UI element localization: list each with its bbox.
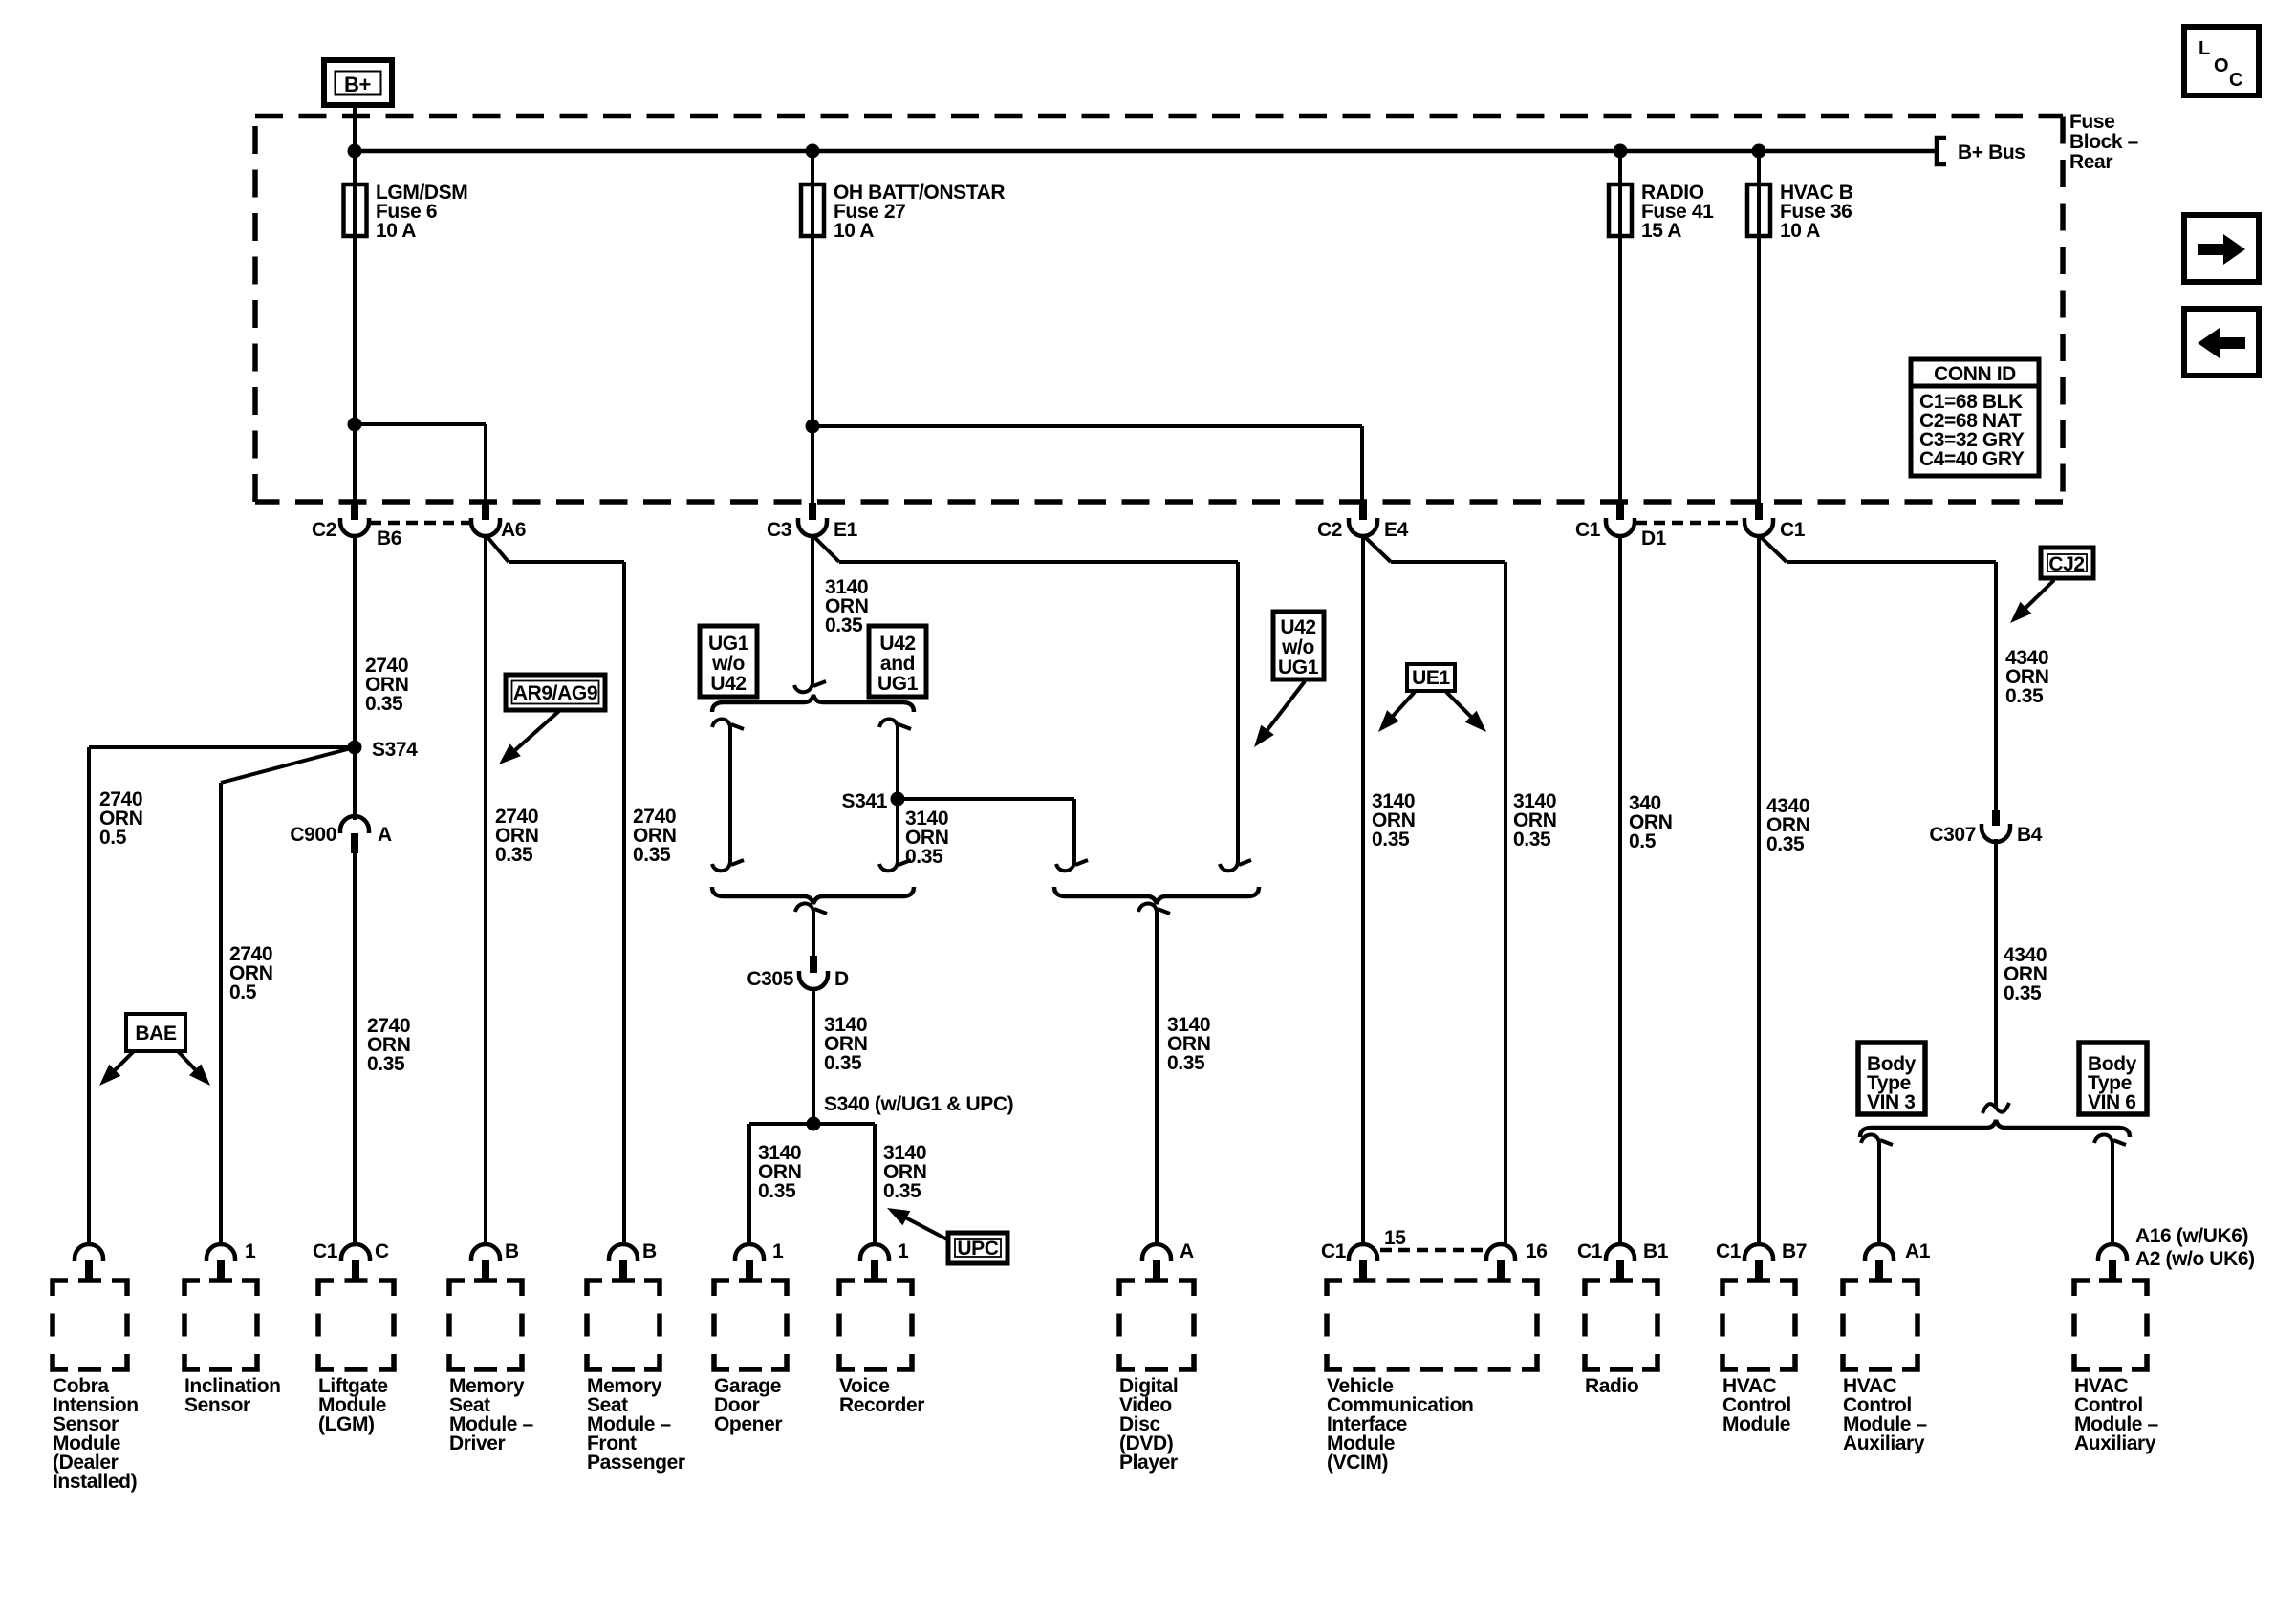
wire bus to fuse 6 <box>353 151 357 503</box>
svg-text:UG1: UG1 <box>877 673 919 695</box>
wire D1 to radio <box>1618 535 1622 1246</box>
wire label 4340 ORN 0.35 (HVAC) <box>1766 795 1809 855</box>
module DVD player, pin A <box>1119 1240 1194 1474</box>
wire label 4340 ORN 0.35 (CJ2 lower) <box>2004 944 2047 1004</box>
svg-text:CJ2: CJ2 <box>2048 553 2084 575</box>
junction bus/F6 <box>348 144 362 159</box>
svg-text:Opener: Opener <box>714 1413 782 1435</box>
svg-text:C1: C1 <box>313 1240 338 1262</box>
callout AR9/AG9 <box>499 675 605 764</box>
hyperlink arrow left box <box>2184 309 2259 376</box>
svg-text:0.35: 0.35 <box>2004 982 2042 1004</box>
svg-text:C1: C1 <box>1321 1240 1347 1262</box>
svg-text:B+ Bus: B+ Bus <box>1958 141 2025 163</box>
wire S340 to voice recorder <box>813 1124 875 1246</box>
svg-text:1: 1 <box>772 1240 784 1262</box>
splice S340 <box>807 1093 1014 1131</box>
svg-text:C3: C3 <box>767 519 791 541</box>
label fuse 41 <box>1641 182 1714 242</box>
fuse F6 LGM/DSM <box>344 184 367 236</box>
wire to HVAC aux (VIN 6) <box>2094 1134 2126 1246</box>
wire C1 to HVAC control module <box>1757 535 1761 1246</box>
svg-text:D: D <box>834 968 849 990</box>
wire B+ to bus <box>353 105 357 151</box>
wire label 2740 ORN 0.35 (Seat Passenger) <box>633 806 676 866</box>
svg-text:VIN 3: VIN 3 <box>1867 1091 1916 1113</box>
svg-text:A: A <box>378 824 392 846</box>
wire brace to C305 <box>795 903 827 956</box>
connector C3 pin E1 <box>767 503 858 541</box>
wire F6 to A6 branch <box>355 424 486 503</box>
label fuse 6 <box>376 182 467 242</box>
svg-text:A6: A6 <box>501 519 526 541</box>
svg-text:O: O <box>2214 55 2228 76</box>
wire S374 to Cobra sensor <box>89 747 355 1246</box>
wire E1 down <box>794 535 826 692</box>
svg-text:Passenger: Passenger <box>587 1452 685 1474</box>
wire bus to fuse 36 <box>1757 151 1761 503</box>
wire label 2740 ORN 0.35 (Seat Driver) <box>495 806 538 866</box>
callout U42 and UG1 <box>869 626 926 697</box>
wire B6 to S374 <box>353 535 357 747</box>
module HVAC control module auxiliary (VIN 3), pin A1 <box>1843 1240 1931 1454</box>
svg-text:15: 15 <box>1384 1227 1406 1249</box>
svg-text:10 A: 10 A <box>1780 220 1820 242</box>
wire label 3140 ORN 0.35 (C305) <box>824 1014 867 1074</box>
svg-text:0.35: 0.35 <box>905 846 943 868</box>
svg-text:0.5: 0.5 <box>229 981 257 1003</box>
svg-text:Recorder: Recorder <box>839 1394 924 1416</box>
option wire U42 and UG1 <box>879 719 911 871</box>
wire label 3140 ORN 0.35 (E1) <box>825 576 868 636</box>
svg-text:0.35: 0.35 <box>883 1180 921 1202</box>
svg-text:Fuse: Fuse <box>2069 111 2114 133</box>
svg-text:C1: C1 <box>1716 1240 1742 1262</box>
svg-text:and: and <box>880 653 915 675</box>
wire label 2740 ORN 0.35 (B6) <box>365 655 408 715</box>
svg-text:D1: D1 <box>1641 528 1667 549</box>
module memory seat front passenger, pin B <box>587 1240 685 1474</box>
svg-text:C305: C305 <box>747 968 793 990</box>
svg-text:A1: A1 <box>1905 1240 1931 1262</box>
svg-text:AR9/AG9: AR9/AG9 <box>513 682 597 704</box>
svg-text:Sensor: Sensor <box>184 1394 250 1416</box>
svg-text:C: C <box>2229 70 2242 91</box>
svg-text:E1: E1 <box>834 519 858 541</box>
svg-text:B6: B6 <box>377 528 401 549</box>
svg-text:0.35: 0.35 <box>365 693 403 715</box>
connector C2 pin B6 <box>312 503 401 549</box>
battery feed terminal B+ <box>324 60 392 105</box>
splice S341 <box>842 790 905 812</box>
svg-text:0.35: 0.35 <box>1766 833 1805 855</box>
svg-text:UG1: UG1 <box>1278 657 1319 678</box>
connector link B6-A6 (dotted) <box>370 521 470 526</box>
module voice recorder, pin 1 <box>839 1240 924 1416</box>
fuse F27 OH BATT/ONSTAR <box>801 184 824 236</box>
connector C305 pin D <box>747 956 849 990</box>
svg-text:w/o: w/o <box>1281 636 1314 658</box>
label fuse 27 <box>834 182 1005 242</box>
LOC reference box <box>2184 27 2259 96</box>
svg-text:C1: C1 <box>1780 519 1806 541</box>
body type split brace <box>1860 1120 2130 1137</box>
wire label 3140 ORN 0.35 (VCIM 16) <box>1513 790 1556 851</box>
wire S341 to DVD option <box>898 799 1088 871</box>
junction bus/F36 <box>1752 144 1766 159</box>
callout Body Type VIN 6 <box>2079 1043 2147 1114</box>
svg-text:C1: C1 <box>1577 1240 1603 1262</box>
wire C305 to S340 <box>812 988 815 1124</box>
module inclination sensor <box>184 1240 281 1416</box>
wire C307 down <box>1994 839 1998 1109</box>
option wire UG1 w/o U42 <box>712 719 744 871</box>
fuse F41 RADIO <box>1609 184 1632 236</box>
wire E1 to DVD option <box>812 535 1251 871</box>
svg-text:0.5: 0.5 <box>99 827 127 849</box>
callout Body Type VIN 3 <box>1858 1043 1925 1114</box>
svg-text:UPC: UPC <box>957 1238 998 1260</box>
wire label 340 ORN 0.5 (Radio) <box>1629 792 1672 852</box>
svg-text:L: L <box>2199 38 2210 59</box>
module HVAC control module, connector C1 pin B7 <box>1716 1240 1807 1435</box>
svg-text:0.35: 0.35 <box>1513 829 1551 851</box>
svg-text:Rear: Rear <box>2069 151 2112 173</box>
svg-text:Auxiliary: Auxiliary <box>1843 1432 1925 1454</box>
svg-text:Driver: Driver <box>449 1432 506 1454</box>
module HVAC control module auxiliary (VIN 6), pins A16/A2 <box>2074 1225 2255 1454</box>
fuse block - rear (dashed outline) <box>255 117 2063 503</box>
module liftgate (LGM), connector C1 pin C <box>313 1240 394 1435</box>
svg-text:VIN 6: VIN 6 <box>2088 1091 2136 1113</box>
svg-text:UE1: UE1 <box>1412 667 1450 689</box>
svg-text:C2: C2 <box>312 519 336 541</box>
svg-text:Radio: Radio <box>1585 1375 1638 1397</box>
svg-text:A: A <box>1180 1240 1194 1262</box>
svg-text:Module: Module <box>1722 1413 1790 1435</box>
wire to HVAC aux (VIN 3) <box>1861 1134 1893 1246</box>
connector C1 pin D1 <box>1575 503 1667 549</box>
module memory seat driver, pin B <box>449 1240 534 1454</box>
wire label 3140 ORN 0.35 (Garage) <box>758 1142 801 1202</box>
connector C2 pin E4 <box>1317 503 1409 541</box>
svg-text:U42: U42 <box>1280 616 1315 638</box>
svg-text:C1: C1 <box>1575 519 1601 541</box>
module radio, connector C1 pin B1 <box>1577 1240 1669 1397</box>
wire S340 to garage door opener <box>749 1124 813 1246</box>
svg-text:S374: S374 <box>372 739 418 761</box>
hyperlink arrow right box <box>2184 215 2259 282</box>
svg-text:B+: B+ <box>344 73 371 97</box>
junction F6 branch <box>348 418 362 432</box>
label Fuse Block - Rear <box>2069 111 2139 173</box>
wire A6 to memory seat passenger <box>486 535 624 1246</box>
wire label 4340 ORN 0.35 (CJ2 upper) <box>2005 647 2048 707</box>
CONN ID legend table <box>1911 359 2039 476</box>
svg-text:10 A: 10 A <box>376 220 416 242</box>
module VCIM, connector C1 pins 15 and 16 <box>1321 1227 1548 1474</box>
connector C1 (HVAC B) <box>1744 503 1806 541</box>
wire E4 to VCIM pin 15 <box>1361 535 1365 1246</box>
svg-text:B4: B4 <box>2017 824 2043 846</box>
svg-text:(VCIM): (VCIM) <box>1327 1452 1388 1474</box>
wire break mark <box>1982 1103 2009 1113</box>
svg-text:0.35: 0.35 <box>367 1053 405 1075</box>
option merge brace (top) <box>712 695 914 712</box>
svg-text:B1: B1 <box>1643 1240 1669 1262</box>
svg-text:15 A: 15 A <box>1641 220 1681 242</box>
svg-text:w/o: w/o <box>711 653 745 675</box>
wire bus to fuse 27 <box>811 151 814 503</box>
svg-text:0.35: 0.35 <box>758 1180 796 1202</box>
svg-text:B7: B7 <box>1782 1240 1807 1262</box>
connector pin A6 <box>471 503 526 541</box>
svg-text:0.35: 0.35 <box>824 1052 862 1074</box>
wire label 2740 ORN 0.35 (Liftgate) <box>367 1015 410 1075</box>
wire C1 to C307 <box>1759 535 1996 810</box>
connector C307 pin B4 <box>1929 810 2042 846</box>
svg-text:U42: U42 <box>879 633 915 655</box>
svg-text:B: B <box>505 1240 519 1262</box>
option merge brace (left bottom) <box>712 887 914 904</box>
junction bus/F27 <box>806 144 820 159</box>
fuse F36 HVAC B <box>1747 184 1770 236</box>
wire E4 to VCIM pin 16 <box>1363 535 1505 1246</box>
callout U42 w/o UG1 <box>1254 612 1324 747</box>
svg-text:C307: C307 <box>1929 824 1976 846</box>
connector link D1-C1 (dotted) <box>1635 521 1743 526</box>
svg-text:0.35: 0.35 <box>633 844 671 866</box>
svg-text:S340 (w/UG1 & UPC): S340 (w/UG1 & UPC) <box>824 1093 1013 1115</box>
svg-text:0.5: 0.5 <box>1629 830 1657 852</box>
B+ bus bar <box>355 149 1935 154</box>
wire label 3140 ORN 0.35 (S341) <box>905 807 948 868</box>
svg-text:C4=40 GRY: C4=40 GRY <box>1919 448 2025 470</box>
junction F27 branch <box>806 420 820 434</box>
callout CJ2 <box>2010 548 2093 623</box>
svg-text:0.35: 0.35 <box>2005 685 2044 707</box>
wire label 3140 ORN 0.35 (Voice) <box>883 1142 926 1202</box>
svg-text:0.35: 0.35 <box>1372 829 1410 851</box>
callout UPC <box>887 1208 1007 1263</box>
splice S374 <box>348 739 419 761</box>
svg-text:BAE: BAE <box>135 1023 177 1044</box>
wire brace to DVD player <box>1138 903 1170 1246</box>
svg-text:S341: S341 <box>842 790 888 812</box>
svg-text:A2 (w/o UK6): A2 (w/o UK6) <box>2135 1248 2255 1270</box>
svg-text:Auxiliary: Auxiliary <box>2074 1432 2156 1454</box>
svg-text:0.35: 0.35 <box>825 614 863 636</box>
wire C900 to liftgate module <box>353 853 357 1246</box>
wire label 2740 ORN 0.5 (Inclination) <box>229 943 272 1003</box>
svg-text:0.35: 0.35 <box>1167 1052 1205 1074</box>
svg-text:Block –: Block – <box>2069 131 2139 153</box>
module garage door opener, pin 1 <box>714 1240 787 1435</box>
svg-text:16: 16 <box>1526 1240 1548 1262</box>
callout UG1 w/o U42 <box>700 626 757 697</box>
wire label 3140 ORN 0.35 (DVD) <box>1167 1014 1210 1074</box>
wire A6 to memory seat driver <box>484 535 487 1246</box>
svg-text:10 A: 10 A <box>834 220 874 242</box>
svg-text:E4: E4 <box>1384 519 1409 541</box>
wire label 2740 ORN 0.5 (Cobra) <box>99 788 142 849</box>
svg-text:(LGM): (LGM) <box>318 1413 375 1435</box>
svg-text:A16 (w/UK6): A16 (w/UK6) <box>2135 1225 2248 1247</box>
svg-text:Player: Player <box>1119 1452 1178 1474</box>
svg-text:1: 1 <box>898 1240 909 1262</box>
connector C900 pin A <box>290 816 392 853</box>
wire label 3140 ORN 0.35 (VCIM 15) <box>1372 790 1415 851</box>
wire F27 to E4 branch <box>812 426 1362 503</box>
svg-text:U42: U42 <box>710 673 746 695</box>
label fuse 36 <box>1780 182 1853 242</box>
svg-text:1: 1 <box>245 1240 256 1262</box>
svg-text:B: B <box>642 1240 657 1262</box>
callout UE1 <box>1378 664 1486 732</box>
svg-text:Installed): Installed) <box>53 1471 137 1493</box>
option merge brace (right bottom) <box>1054 887 1259 904</box>
svg-text:C: C <box>375 1240 389 1262</box>
B+ bus terminal bracket <box>1937 138 2025 164</box>
svg-text:CONN ID: CONN ID <box>1934 363 2016 385</box>
svg-text:UG1: UG1 <box>708 633 749 655</box>
svg-text:C2: C2 <box>1317 519 1342 541</box>
callout BAE <box>99 1014 210 1086</box>
module Cobra intension sensor <box>53 1244 139 1493</box>
wire S374 to inclination sensor <box>221 747 355 1246</box>
junction bus/F41 <box>1614 144 1628 159</box>
svg-text:0.35: 0.35 <box>495 844 533 866</box>
wire bus to fuse 41 <box>1618 151 1622 503</box>
svg-text:C900: C900 <box>290 824 336 846</box>
wire S374 to C900 <box>353 747 357 820</box>
